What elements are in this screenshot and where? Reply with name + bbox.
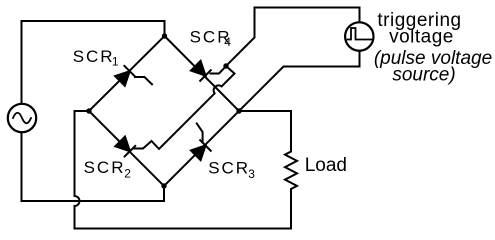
- svg-text:1: 1: [112, 55, 119, 69]
- svg-text:voltage: voltage: [389, 27, 454, 48]
- svg-text:SCR: SCR: [73, 47, 115, 66]
- junction dot: right vertex: [236, 108, 241, 113]
- SCR3: [164, 111, 239, 186]
- SCR4: [165, 36, 240, 111]
- svg-text:3: 3: [248, 167, 255, 181]
- SCR2: [89, 111, 164, 186]
- svg-text:SCR: SCR: [208, 158, 250, 177]
- AC source: [8, 104, 36, 132]
- wire: AC source bottom to bridge bottom vertex: [22, 133, 165, 202]
- svg-text:2: 2: [124, 167, 131, 181]
- wire: bridge right vertex to load top: [239, 110, 291, 112]
- wire: bridge right vertex to pulse source bottom: [239, 51, 360, 111]
- junction dot: SCR gate trigger node: [223, 63, 228, 68]
- junction dot: left vertex: [86, 108, 91, 113]
- pulse voltage source: [345, 22, 373, 50]
- wire: AC source top to bridge top vertex: [22, 21, 165, 104]
- svg-text:SCR: SCR: [84, 158, 126, 177]
- svg-text:source): source): [392, 64, 455, 85]
- load resistor: [285, 111, 297, 229]
- wire: pulse source top to SCR gate node: [226, 8, 360, 67]
- svg-text:Load: Load: [305, 155, 347, 176]
- junction dot: bottom vertex: [161, 183, 166, 188]
- svg-text:4: 4: [224, 35, 231, 49]
- junction dot: top vertex: [162, 33, 167, 38]
- wire: bridge left vertex to load bottom (hops over lower wire): [75, 111, 292, 229]
- wire: SCR2 gate to trigger node (hops over SCR4 branch): [134, 66, 235, 149]
- SCR1: [89, 36, 165, 111]
